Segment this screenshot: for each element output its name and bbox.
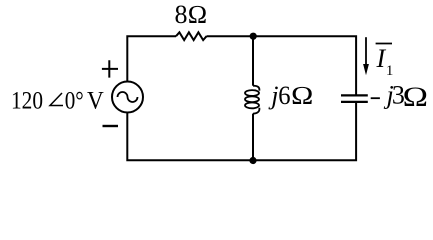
resistor R1 8Ω zigzag: [176, 32, 207, 40]
inductor L1 j6Ω coil: [245, 86, 259, 114]
polarity minus sign: [103, 125, 119, 127]
svg-text:Ω: Ω: [402, 82, 428, 113]
junction node top at inductor branch: [250, 33, 257, 40]
wire left branch down, bottom rail, right branch up to capacitor: [127, 103, 356, 161]
label −j3Ω: [371, 81, 429, 113]
voltage source sine wave: [118, 92, 138, 102]
svg-text:j: j: [268, 81, 278, 110]
junction node bottom at inductor branch: [249, 157, 256, 164]
angle symbol of phasor: [50, 93, 63, 106]
svg-text:V: V: [87, 88, 104, 115]
label 0° V continuation: [65, 88, 104, 115]
svg-text:8Ω: 8Ω: [175, 0, 208, 29]
wire middle branch inductor to bottom node: [252, 114, 254, 161]
svg-text:0°: 0°: [65, 88, 84, 115]
wire top rail from resistor past top node to right branch: [207, 36, 357, 94]
capacitor C1 bottom plate: [341, 101, 368, 103]
capacitor C1 top plate: [341, 94, 368, 96]
voltage source VS circle: [112, 82, 143, 113]
polarity plus sign: [102, 60, 118, 77]
current arrow I1: [363, 37, 369, 75]
label I1 overbar: [376, 43, 392, 45]
label j6Ω: [268, 81, 314, 110]
svg-text:120: 120: [11, 88, 43, 115]
wire middle branch top node to inductor: [252, 36, 254, 85]
wire left branch up and top rail to resistor: [127, 36, 176, 81]
svg-text:6: 6: [278, 81, 290, 110]
svg-text:Ω: Ω: [291, 81, 314, 110]
svg-text:I: I: [376, 44, 387, 73]
svg-text:1: 1: [386, 63, 394, 79]
